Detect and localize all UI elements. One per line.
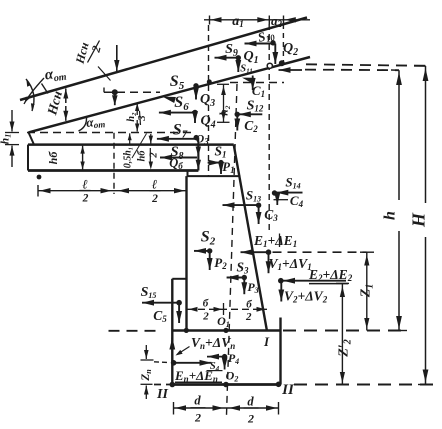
svg-text:2: 2 [151,193,158,205]
svg-text:II: II [156,387,168,402]
svg-text:h₂: h₂ [219,105,231,115]
svg-text:3: 3 [137,115,148,121]
svg-text:2: 2 [202,311,209,323]
svg-text:h₂: h₂ [126,112,137,122]
svg-text:d: d [247,395,254,409]
svg-text:hб: hб [137,150,148,162]
svg-text:Vп+ΔVп: Vп+ΔVп [191,335,235,351]
svg-text:E2+ΔE2: E2+ΔE2 [308,267,353,283]
svg-text:I: I [263,334,270,349]
svg-text:2: 2 [247,412,254,426]
svg-text:б: б [203,298,209,310]
svg-text:d: d [194,394,201,408]
svg-text:ℓ: ℓ [82,177,88,192]
svg-text:II: II [281,382,295,398]
svg-text:hб: hб [46,151,60,165]
svg-text:ℓ: ℓ [152,177,158,192]
svg-text:E1+ΔE1: E1+ΔE1 [253,233,297,249]
svg-text:2: 2 [194,411,201,425]
svg-text:2: 2 [82,193,89,205]
svg-text:V1+ΔV1: V1+ΔV1 [269,256,312,272]
svg-text:V2+ΔV2: V2+ΔV2 [284,289,328,305]
svg-text:б: б [246,299,252,311]
svg-text:2: 2 [245,311,252,323]
svg-text:h: h [382,211,399,220]
svg-text:H: H [409,212,429,228]
svg-text:2: 2 [149,152,160,159]
